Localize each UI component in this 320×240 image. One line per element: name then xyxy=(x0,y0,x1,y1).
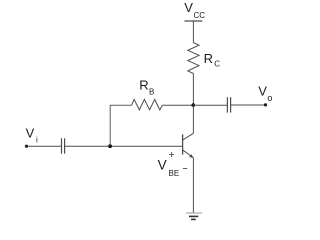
label VCC xyxy=(184,0,205,20)
svg-text:R: R xyxy=(139,77,148,92)
junction node base xyxy=(108,144,112,148)
svg-text:B: B xyxy=(149,87,154,96)
resistor RB xyxy=(132,99,163,110)
wire base node riser to RB xyxy=(110,105,131,146)
svg-text:V: V xyxy=(184,0,193,15)
wire VCC to RC xyxy=(192,21,194,43)
resistor RC xyxy=(188,43,199,74)
wire RC to collector node xyxy=(192,74,194,106)
terminal Vi xyxy=(25,145,28,148)
transistor Q1 xyxy=(183,133,194,158)
svg-text:BE: BE xyxy=(169,169,180,178)
svg-text:V: V xyxy=(258,84,267,99)
label VBE with polarity xyxy=(158,152,188,178)
capacitor C1 xyxy=(62,138,65,153)
wire emitter to ground xyxy=(192,158,194,213)
svg-text:CC: CC xyxy=(194,11,206,20)
label Vi xyxy=(26,125,38,144)
wire RB to collector node xyxy=(162,104,193,106)
label RC xyxy=(204,51,221,69)
wire Vi to C1 xyxy=(27,145,62,147)
svg-text:V: V xyxy=(26,125,35,140)
svg-text:C: C xyxy=(214,59,220,68)
terminal Vo xyxy=(264,103,267,106)
wire collector node to C2 xyxy=(193,104,227,106)
svg-text:R: R xyxy=(204,51,213,66)
label Vo xyxy=(258,84,272,103)
wire C2 to Vo xyxy=(231,104,266,106)
wire C1 to base xyxy=(65,145,183,147)
power terminal VCC bar xyxy=(185,20,203,22)
ground xyxy=(186,213,202,219)
svg-text:V: V xyxy=(158,157,167,172)
wire collector to node xyxy=(192,105,194,133)
label RB xyxy=(139,77,154,96)
svg-text:o: o xyxy=(267,93,272,103)
capacitor C2 xyxy=(227,97,230,112)
junction node collector xyxy=(191,103,195,107)
svg-text:i: i xyxy=(36,135,38,144)
